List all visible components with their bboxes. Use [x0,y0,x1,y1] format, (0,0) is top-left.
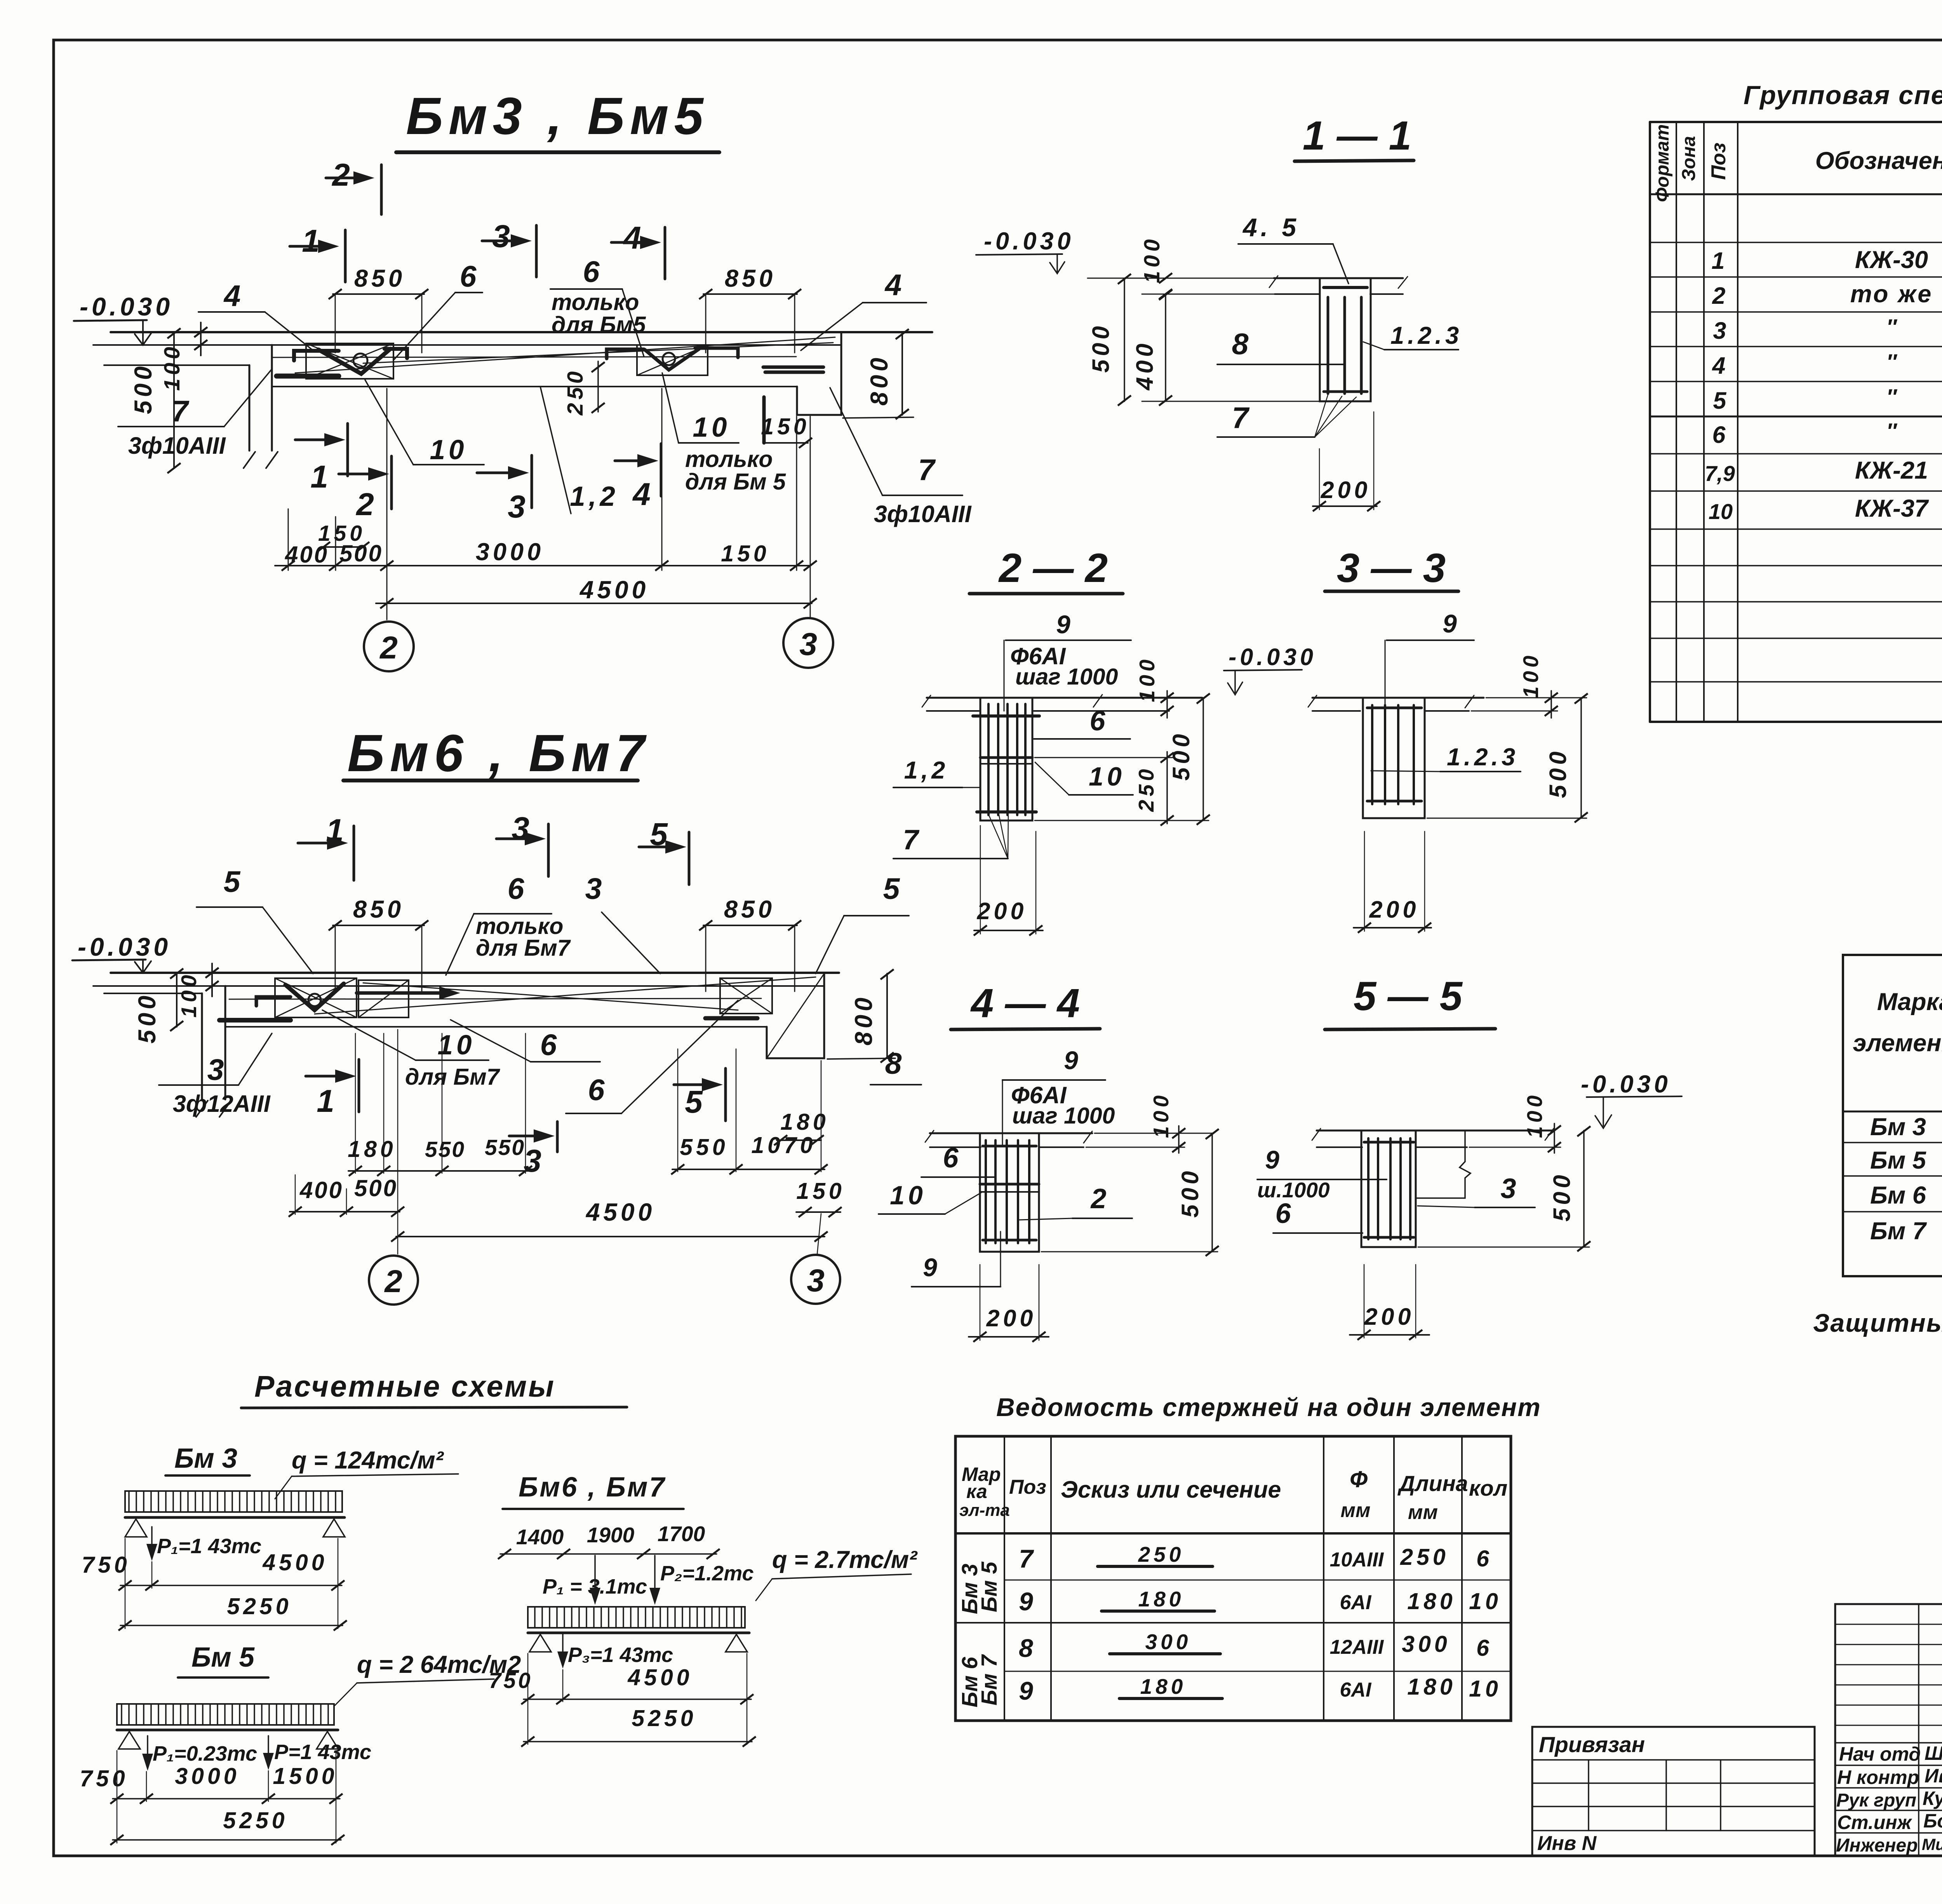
svg-text:-0.030: -0.030 [78,932,171,961]
table outer [1843,955,1942,1276]
svg-text:200: 200 [977,898,1027,924]
svg-text:4500: 4500 [579,576,649,604]
svg-text:7: 7 [903,824,922,855]
svg-text:-0.030: -0.030 [1581,1071,1671,1098]
svg-text:2 — 2: 2 — 2 [998,545,1108,591]
svg-text:-0.030: -0.030 [80,292,173,321]
svg-text:550: 550 [680,1134,728,1160]
svg-text:P₃=1 43тс: P₃=1 43тс [568,1643,673,1667]
top mesh bar [973,714,1039,718]
svg-text:9: 9 [1019,1676,1037,1705]
svg-text:250: 250 [1138,1542,1185,1566]
svg-text:Привязан: Привязан [1539,1732,1645,1757]
svg-text:1400: 1400 [516,1525,564,1549]
svg-text:Бм 3: Бм 3 [1870,1113,1926,1141]
svg-text:6: 6 [508,872,525,906]
svg-text:100: 100 [1140,236,1164,283]
svg-text:4: 4 [623,220,641,256]
svg-text:Бм 7: Бм 7 [977,1654,1002,1705]
svg-text:850: 850 [354,265,405,292]
svg-text:1: 1 [317,1084,334,1119]
svg-text:200: 200 [1369,896,1420,923]
left wall [201,993,203,1099]
svg-text:5: 5 [1713,387,1730,414]
svg-text:400: 400 [299,1177,343,1203]
svg-text:2: 2 [331,157,350,193]
svg-text:4: 4 [1712,352,1729,379]
slab lines [927,697,1202,699]
svg-text:500: 500 [1545,748,1571,798]
svg-text:800: 800 [850,994,877,1045]
svg-text:6АI: 6АI [1340,1591,1372,1614]
svg-text:Поз: Поз [1009,1476,1046,1498]
box 3 right [720,978,772,1014]
svg-text:9: 9 [1265,1145,1283,1174]
svg-text:7: 7 [1232,401,1250,435]
beam right end block [797,332,841,415]
beam section outline [980,1133,1039,1252]
beam section outline [1361,1131,1416,1247]
svg-text:180: 180 [780,1109,829,1135]
svg-text:750: 750 [489,1668,532,1693]
svg-text:750: 750 [80,1766,128,1791]
svg-text:P₁=0.23тс: P₁=0.23тс [153,1742,257,1765]
svg-text:Длина: Длина [1397,1471,1468,1496]
grid bubble 2 [369,1256,418,1305]
svg-text:1700: 1700 [658,1522,705,1546]
svg-text:шаг 1000: шаг 1000 [1015,664,1118,690]
svg-text:180: 180 [1138,1587,1185,1611]
svg-text:1: 1 [302,223,320,259]
svg-text:7: 7 [1019,1544,1037,1573]
svg-text:Кунцевич: Кунцевич [1923,1787,1942,1809]
svg-text:Формат: Формат [1652,124,1673,202]
ledge line [104,993,202,994]
beam2 right end bottom extension [827,1058,895,1059]
slab top line [111,972,839,974]
svg-text:250: 250 [1400,1544,1449,1570]
spec table verticals [1676,122,1677,722]
slab cut break with Z [1416,1131,1470,1198]
saddle assembly 1 [306,343,393,379]
svg-text:3ф10АIII: 3ф10АIII [128,432,226,459]
svg-text:550: 550 [425,1137,465,1162]
svg-text:1,2: 1,2 [570,481,619,512]
svg-text:5: 5 [685,1084,703,1120]
slab lines [1317,1130,1554,1132]
beam [528,1632,749,1634]
svg-text:1900: 1900 [587,1523,635,1547]
svg-text:4 — 4: 4 — 4 [970,981,1080,1026]
svg-text:Мирошникова: Мирошникова [1922,1835,1942,1853]
svg-text:180: 180 [1407,1589,1456,1614]
grid bubble 2 [364,622,414,671]
beam right end block [767,973,824,1058]
svg-text:1500: 1500 [273,1763,338,1789]
svg-text:10: 10 [430,435,468,465]
svg-text:P=1 43тс: P=1 43тс [274,1740,371,1764]
svg-text:250: 250 [1134,766,1158,812]
long bent rebar diagonals [229,998,761,999]
svg-text:КЖ-37: КЖ-37 [1855,495,1929,522]
svg-text:180: 180 [1407,1674,1456,1700]
svg-text:4500: 4500 [585,1198,655,1226]
svg-text:500: 500 [339,540,383,566]
verticals [1004,1436,1005,1721]
svg-text:КЖ-21: КЖ-21 [1855,457,1928,484]
svg-text:2: 2 [1712,282,1729,309]
box 2 mid [358,980,409,1017]
bottom bar [977,810,1036,814]
svg-text:6: 6 [1089,706,1108,737]
svg-text:Н контр: Н контр [1837,1766,1919,1788]
svg-text:300: 300 [1145,1630,1192,1654]
svg-text:4: 4 [632,477,651,512]
svg-text:q = 124тс/м²: q = 124тс/м² [292,1447,444,1474]
right end rebar bars [763,366,823,369]
svg-text:3: 3 [207,1053,224,1087]
svg-text:Нач отд: Нач отд [1839,1743,1921,1765]
svg-text:для Бм5: для Бм5 [552,312,646,338]
svg-text:Бм 5: Бм 5 [191,1642,255,1673]
svg-text:9: 9 [1064,1046,1082,1075]
svg-text:7,9: 7,9 [1705,461,1735,486]
svg-text:″: ″ [1886,350,1898,374]
saddle assembly 1 [275,978,357,1017]
svg-text:Боровик: Боровик [1923,1810,1942,1832]
grid bubble 3 [783,618,833,668]
slab top line [111,331,932,333]
svg-text:850: 850 [353,896,404,923]
svg-text:6: 6 [1275,1198,1294,1229]
svg-text:3: 3 [799,627,817,662]
svg-text:9: 9 [1056,610,1074,639]
svg-text:q = 2.7тс/м²: q = 2.7тс/м² [772,1546,918,1573]
svg-text:9: 9 [1019,1587,1037,1616]
svg-text:1.2.3: 1.2.3 [1390,322,1462,349]
svg-text:1.2.3: 1.2.3 [1447,744,1519,771]
svg-text:5250: 5250 [632,1705,696,1731]
svg-text:6: 6 [1476,1635,1493,1661]
svg-text:6: 6 [460,260,477,293]
beam section outline [980,698,1032,820]
svg-text:10: 10 [438,1030,475,1061]
beam section outline [1320,278,1371,401]
svg-text:6: 6 [1712,422,1729,448]
rebar verticals [1327,297,1329,394]
svg-text:3: 3 [1713,317,1730,344]
svg-text:3: 3 [492,219,510,254]
svg-text:100: 100 [1519,652,1543,699]
svg-text:шаг 1000: шаг 1000 [1012,1103,1115,1129]
svg-text:9: 9 [1443,609,1460,638]
slab lines [1312,697,1484,699]
svg-text:500: 500 [1088,323,1114,373]
rebars [1367,1138,1369,1239]
svg-text:300: 300 [1402,1631,1450,1657]
svg-text:100: 100 [177,972,201,1018]
svg-text:″: ″ [1886,385,1898,409]
svg-text:200: 200 [1364,1303,1415,1330]
svg-text:6АI: 6АI [1340,1679,1372,1701]
svg-text:10: 10 [1089,762,1125,791]
svg-text:2: 2 [355,487,374,522]
svg-text:10АIII: 10АIII [1330,1549,1384,1571]
svg-text:3: 3 [1500,1173,1519,1204]
svg-text:3ф12АIII: 3ф12АIII [173,1090,271,1117]
svg-text:Групповая спецификация для мон: Групповая спецификация для монолитных эл… [1744,80,1942,110]
svg-text:P₁=1 43тс: P₁=1 43тс [157,1535,261,1558]
svg-text:Рук груп: Рук груп [1836,1790,1916,1811]
svg-text:500: 500 [1549,1172,1575,1222]
slab bottom line [93,344,841,346]
svg-text:100: 100 [1523,1092,1547,1138]
svg-text:1: 1 [1712,247,1728,274]
svg-text:500: 500 [134,992,161,1043]
svg-text:10: 10 [1469,1589,1502,1614]
svg-text:КЖ-30: КЖ-30 [1855,246,1928,273]
svg-text:2: 2 [384,1264,402,1299]
svg-text:150: 150 [761,414,809,439]
svg-text:2: 2 [1090,1183,1110,1214]
svg-text:9: 9 [923,1253,941,1282]
supports [125,1519,147,1537]
scheme Бм5 load band [117,1704,334,1725]
svg-text:550: 550 [485,1135,525,1160]
svg-text:850: 850 [724,896,775,923]
svg-text:5: 5 [883,872,900,906]
svg-text:4500: 4500 [627,1665,693,1690]
svg-text:200: 200 [1321,477,1371,503]
scheme Бм3 beam [125,1516,345,1519]
load band [528,1607,745,1628]
svg-text:6: 6 [943,1143,962,1174]
table outer [955,1436,1511,1721]
svg-text:5 — 5: 5 — 5 [1354,974,1463,1019]
svg-text:3000: 3000 [476,538,544,566]
svg-text:3: 3 [524,1143,541,1179]
svg-text:800: 800 [866,354,893,406]
beam1 right end bottom extension [843,417,914,418]
svg-text:Бм6 , Бм7: Бм6 , Бм7 [347,724,650,782]
svg-text:элемента: элемента [1853,1030,1942,1057]
svg-text:100: 100 [160,343,184,391]
svg-text:500: 500 [130,363,157,414]
svg-text:Шейко: Шейко [1925,1742,1942,1764]
svg-text:Бм 3: Бм 3 [174,1443,237,1474]
svg-text:400: 400 [1131,340,1158,391]
svg-text:-0.030: -0.030 [1229,644,1317,670]
svg-text:Марка: Марка [1877,988,1942,1016]
svg-text:150: 150 [796,1178,845,1204]
slab lines [930,1132,1092,1134]
svg-text:750: 750 [82,1552,130,1578]
svg-text:500: 500 [354,1175,398,1201]
svg-text:Ведомость стержней на один эле: Ведомость стержней на один элемент [996,1393,1541,1421]
svg-text:500: 500 [1177,1168,1203,1218]
svg-text:10: 10 [890,1181,926,1210]
svg-text:3000: 3000 [175,1763,240,1789]
svg-text:4: 4 [223,279,241,313]
rebars [985,1140,987,1243]
svg-text:7: 7 [918,453,936,487]
svg-text:мм: мм [1408,1501,1438,1524]
svg-text:500: 500 [1168,731,1194,781]
scheme Бм5 beam [117,1729,338,1732]
svg-text:8: 8 [1232,327,1249,361]
svg-text:P₂=1.2тс: P₂=1.2тс [660,1562,754,1585]
svg-text:100: 100 [1149,1092,1173,1138]
ledge line [104,364,249,366]
slab bottom line [93,985,824,987]
svg-text:Инв N: Инв N [1537,1832,1597,1855]
saddle assembly 2 [637,345,708,375]
beam bottom midspan [272,386,797,387]
right dark bars [705,1016,757,1021]
svg-text:Бм 5: Бм 5 [1870,1147,1926,1174]
svg-text:4: 4 [884,268,902,302]
horizontals [955,1532,1511,1535]
svg-text:1: 1 [310,459,328,495]
svg-text:850: 850 [725,265,776,292]
svg-text:6: 6 [1476,1546,1493,1571]
svg-text:Зона: Зона [1679,136,1699,181]
grid bubble 3 [791,1255,840,1304]
svg-text:8: 8 [885,1047,902,1080]
svg-text:Поз: Поз [1707,143,1730,180]
svg-text:200: 200 [986,1305,1037,1331]
beam section outline [1363,698,1425,818]
top mesh bar 4.5 [1324,286,1367,289]
svg-text:Иванов: Иванов [1925,1765,1942,1787]
svg-text:то же: то же [1850,280,1933,308]
slab lines [1274,277,1403,279]
svg-text:Расчетные схемы: Расчетные схемы [254,1370,555,1403]
svg-text:Бм3 , Бм5: Бм3 , Бм5 [406,87,709,145]
scheme Бм3 load band [125,1491,342,1512]
svg-text:8: 8 [1019,1634,1037,1662]
svg-text:6: 6 [583,255,600,289]
svg-text:эл-та: эл-та [959,1501,1010,1520]
long bent rebar diagonals [272,357,796,357]
svg-text:Бм 7: Бм 7 [1870,1218,1927,1245]
svg-text:Бм 6: Бм 6 [1870,1182,1926,1209]
svg-text:Ст.инж: Ст.инж [1837,1812,1912,1833]
svg-text:100: 100 [1135,656,1159,702]
svg-text:″: ″ [1886,315,1898,339]
rebars [1371,705,1373,804]
svg-text:2: 2 [379,630,398,665]
svg-text:3 — 3: 3 — 3 [1337,545,1446,591]
svg-text:5250: 5250 [227,1594,292,1619]
svg-text:1070: 1070 [751,1132,816,1158]
svg-text:7: 7 [172,395,190,428]
svg-text:1,2: 1,2 [904,757,949,784]
svg-text:12АIII: 12АIII [1330,1636,1384,1658]
svg-text:3ф10АIII: 3ф10АIII [874,501,972,527]
svg-text:только: только [685,446,773,472]
svg-text:3: 3 [585,872,602,906]
svg-text:ка: ка [966,1481,987,1502]
svg-text:10: 10 [1709,499,1733,524]
svg-text:мм: мм [1341,1499,1371,1522]
svg-text:5: 5 [224,865,241,899]
svg-text:6: 6 [540,1028,557,1062]
svg-text:для Бм7: для Бм7 [405,1064,501,1090]
svg-text:10: 10 [693,412,731,443]
svg-text:1 — 1: 1 — 1 [1303,113,1411,159]
svg-text:4500: 4500 [262,1550,327,1575]
svg-text:″: ″ [1886,419,1898,443]
svg-text:Обозначение: Обозначение [1815,147,1942,174]
svg-text:Бм6 , Бм7: Бм6 , Бм7 [519,1472,666,1503]
svg-text:Ф: Ф [1350,1467,1368,1492]
svg-text:Инженер: Инженер [1836,1835,1918,1856]
svg-text:250: 250 [563,368,588,416]
rebar verticals [987,704,990,815]
svg-text:-0.030: -0.030 [984,228,1074,255]
svg-text:для Бм 5: для Бм 5 [685,469,786,495]
svg-text:3: 3 [508,489,526,524]
svg-text:4. 5: 4. 5 [1242,213,1300,242]
svg-text:6: 6 [588,1073,605,1107]
svg-text:150: 150 [721,541,769,566]
left wall [249,365,251,451]
svg-text:5250: 5250 [223,1808,288,1833]
spec table outer border [1650,121,1942,123]
svg-text:для Бм7: для Бм7 [476,935,571,961]
mid splice bars [980,756,1032,759]
svg-text:Бм 5: Бм 5 [977,1561,1002,1612]
svg-text:180: 180 [1140,1674,1187,1698]
beam bottom midspan [225,1026,767,1028]
svg-text:3: 3 [807,1263,825,1298]
svg-text:Защитный слой бетона до: Защитный слой бетона до рабочей арматуры… [1813,1308,1942,1337]
svg-text:Эскиз или сечение: Эскиз или сечение [1061,1476,1281,1503]
svg-text:10: 10 [1469,1676,1502,1702]
svg-text:кол: кол [1469,1476,1507,1501]
